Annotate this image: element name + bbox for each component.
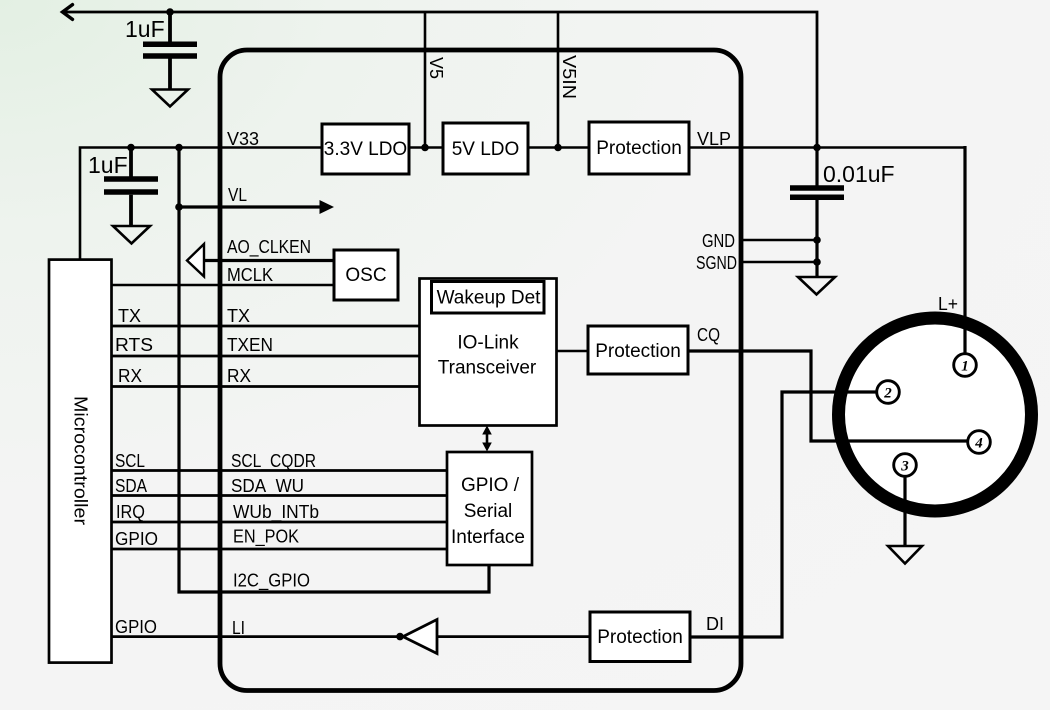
svg-text:RTS: RTS	[115, 335, 153, 355]
svg-text:DI: DI	[706, 614, 724, 634]
svg-text:V5IN: V5IN	[559, 55, 579, 99]
wire DI to pin2	[690, 392, 877, 637]
svg-text:1uF: 1uF	[125, 16, 165, 42]
pin 1	[954, 354, 977, 377]
svg-text:Transceiver: Transceiver	[438, 358, 537, 379]
ground (below pin 3)	[888, 546, 922, 564]
svg-text:Microcontroller: Microcontroller	[71, 396, 91, 525]
svg-text:SGND: SGND	[696, 253, 737, 273]
svg-text:GPIO: GPIO	[115, 529, 158, 549]
junction dot (VL tap)	[175, 203, 183, 211]
junction dot LI	[396, 633, 404, 641]
ground (below C2)	[113, 226, 150, 244]
junction dot SGND	[813, 258, 821, 266]
wire LDO5 to protection	[528, 146, 589, 149]
pin 2	[877, 381, 900, 404]
wire top rail (V5 to external)	[62, 12, 817, 148]
wire VLP	[689, 146, 965, 149]
svg-text:Protection: Protection	[596, 138, 682, 159]
wire CQ to pin4	[688, 351, 968, 441]
svg-text:0.01uF: 0.01uF	[823, 161, 895, 187]
protection block U-prot3 (DI)	[590, 612, 690, 662]
svg-text:V33: V33	[227, 129, 259, 149]
wire V5 vertical	[424, 12, 427, 148]
regulator 5V LDO	[443, 123, 528, 174]
microcontroller U2	[49, 260, 112, 663]
wire V33 net (to microcontroller)	[80, 148, 322, 260]
oscillator OSC	[334, 250, 398, 300]
wire LI (mcu to buffer)	[111, 635, 400, 638]
svg-text:TX: TX	[227, 306, 250, 326]
svg-text:L+: L+	[938, 294, 958, 314]
svg-text:IRQ: IRQ	[116, 502, 145, 522]
svg-text:VL: VL	[228, 185, 247, 205]
svg-text:SDA_WU: SDA_WU	[231, 476, 304, 497]
svg-text:GND: GND	[702, 231, 735, 251]
svg-text:IO-Link: IO-Link	[457, 333, 519, 354]
svg-text:TX: TX	[118, 306, 141, 326]
svg-text:GPIO: GPIO	[115, 617, 157, 637]
svg-text:Serial: Serial	[464, 501, 513, 522]
svg-text:AO_CLKEN: AO_CLKEN	[227, 237, 311, 258]
wire SGND	[741, 261, 817, 264]
capacitor C3 plates	[790, 188, 844, 197]
junction dot V5	[421, 144, 429, 152]
wire VL	[179, 205, 321, 208]
wire buffer to protection DI	[437, 635, 590, 638]
wire WUb_INTb	[111, 521, 447, 524]
wire EN_POK	[111, 548, 447, 551]
svg-text:EN_POK: EN_POK	[233, 527, 299, 548]
wire SCL_CQDR	[111, 469, 447, 472]
ground (below C3)	[798, 277, 835, 295]
capacitor C3 0.01uF lead	[815, 148, 818, 278]
svg-text:GPIO /: GPIO /	[461, 475, 520, 496]
wire AO_CLKEN	[204, 259, 334, 262]
capacitor C1 1uF (top) lead	[168, 12, 172, 91]
svg-text:TXEN: TXEN	[227, 335, 273, 355]
junction dot GND	[813, 236, 821, 244]
junction dot (C2 tap on V33)	[127, 144, 135, 152]
junction dot V5IN	[554, 144, 562, 152]
wire LDO33 to LDO5	[409, 146, 443, 149]
capacitor C2 plates	[104, 179, 158, 192]
wire GND	[741, 239, 817, 242]
capacitor C1 plates	[143, 44, 197, 56]
svg-text:MCLK: MCLK	[227, 265, 273, 285]
junction dot (bus on V33)	[175, 144, 183, 152]
svg-text:1uF: 1uF	[88, 152, 128, 178]
junction dot (C1 tap on top rail)	[166, 8, 174, 16]
arrowhead AO_CLKEN (open left triangle)	[187, 244, 204, 277]
svg-text:VLP: VLP	[697, 129, 731, 149]
pin 3	[894, 454, 917, 477]
svg-text:I2C_GPIO: I2C_GPIO	[233, 571, 310, 592]
wakeup detector block	[432, 282, 545, 314]
junction dot VLP/C3	[813, 144, 821, 152]
svg-text:Wakeup Det: Wakeup Det	[437, 288, 542, 309]
connector M12 ring	[839, 318, 1032, 511]
wire VL bus vertical + I2C_GPIO return	[179, 148, 489, 593]
svg-text:WUb_INTb: WUb_INTb	[233, 502, 319, 523]
protection block U-prot2 (CQ)	[588, 326, 688, 374]
svg-text:SDA: SDA	[115, 476, 147, 496]
svg-text:LI: LI	[232, 618, 245, 638]
svg-text:2: 2	[883, 386, 892, 402]
gpio serial interface block	[447, 452, 532, 565]
svg-text:RX: RX	[118, 366, 142, 386]
IC boundary (transceiver chip outline)	[220, 50, 741, 691]
wire SDA_WU	[111, 494, 447, 497]
svg-text:Protection: Protection	[597, 627, 683, 648]
svg-text:5V LDO: 5V LDO	[452, 139, 520, 160]
ground (below C1)	[152, 90, 188, 107]
regulator 3.3V LDO	[322, 124, 409, 174]
capacitor C2 1uF (left) lead	[129, 148, 133, 227]
svg-text:SCL_CQDR: SCL_CQDR	[231, 451, 316, 472]
svg-text:3.3V LDO: 3.3V LDO	[324, 139, 407, 160]
arrowhead left on top rail	[63, 5, 73, 20]
svg-text:1: 1	[961, 359, 969, 375]
arrowhead VL (filled right)	[320, 200, 335, 214]
transceiver U1 IO-Link	[420, 279, 557, 426]
svg-text:RX: RX	[227, 366, 251, 386]
svg-text:3: 3	[900, 459, 909, 475]
wire RX	[111, 385, 420, 388]
pin 4	[968, 431, 991, 454]
svg-text:OSC: OSC	[345, 265, 386, 286]
double arrow (transceiver to gpio block)	[486, 432, 489, 445]
buffer (LI input, open left triangle)	[403, 620, 437, 654]
svg-text:V5: V5	[426, 57, 446, 79]
wire transceiver to protection CQ	[557, 350, 589, 353]
wire MCLK	[111, 284, 334, 287]
svg-text:4: 4	[974, 436, 983, 452]
wire TXEN	[111, 355, 420, 358]
svg-text:CQ: CQ	[697, 325, 720, 345]
wire pin3 to ground	[903, 477, 906, 547]
protection block U-prot1 (VLP)	[589, 122, 689, 174]
svg-text:Interface: Interface	[451, 527, 525, 548]
wire TX	[111, 325, 420, 328]
svg-text:SCL: SCL	[115, 451, 145, 471]
wire V5IN vertical	[557, 12, 560, 148]
svg-text:Protection: Protection	[595, 341, 681, 362]
